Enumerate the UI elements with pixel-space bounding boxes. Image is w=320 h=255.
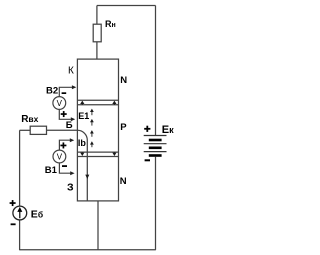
arrow Ib a xyxy=(91,133,93,137)
arrow E1 a xyxy=(91,111,93,115)
junction 2 arrow right xyxy=(112,152,116,156)
svg-text:E1: E1 xyxy=(78,111,89,121)
junction 1 lower line xyxy=(77,104,118,106)
wire B1 top probe xyxy=(59,140,70,150)
wire base to box xyxy=(47,129,78,131)
wire left rail lower xyxy=(19,220,21,250)
wire base current arc and inner vertical xyxy=(77,130,87,201)
wire bottom rail xyxy=(20,249,156,251)
wire collector branch upper xyxy=(96,6,98,25)
battery Ek plates xyxy=(144,136,167,152)
junction 1 upper line xyxy=(77,99,118,101)
svg-text:Rн: Rн xyxy=(105,19,116,29)
svg-text:Eк: Eк xyxy=(162,124,174,136)
wire right rail upper xyxy=(155,6,157,136)
resistor Rvx body xyxy=(30,126,46,134)
plus B1 xyxy=(60,145,66,147)
junction 2 lower line xyxy=(77,156,118,158)
transistor structure box xyxy=(77,59,118,201)
wire emitter below box xyxy=(97,201,99,250)
junction 2 upper line xyxy=(77,151,118,153)
source Eb arrow xyxy=(19,211,21,218)
arrow Ib b xyxy=(91,144,93,147)
svg-text:P: P xyxy=(120,122,127,133)
emitter current arrow xyxy=(85,175,89,179)
plus B2 xyxy=(61,113,67,115)
svg-text:Ib: Ib xyxy=(78,138,87,148)
minus Eb xyxy=(11,223,16,225)
svg-text:B1: B1 xyxy=(45,165,58,176)
svg-text:N: N xyxy=(120,176,127,187)
wire base left xyxy=(20,129,31,131)
plus Eb xyxy=(10,202,16,204)
minus B1 xyxy=(62,165,67,167)
wire left rail upper xyxy=(19,130,21,206)
junction 1 arrow right xyxy=(112,101,116,105)
svg-text:Rвх: Rвх xyxy=(21,114,38,125)
junction 1 arrow left xyxy=(80,101,84,105)
svg-text:Eб: Eб xyxy=(31,208,43,220)
svg-text:B2: B2 xyxy=(46,86,58,97)
junction 2 arrow left xyxy=(80,152,84,156)
wire B1 bottom probe xyxy=(59,163,70,173)
voltmeter B2 circle xyxy=(53,97,66,110)
svg-text:З: З xyxy=(67,182,74,194)
plus Ek xyxy=(144,128,150,130)
svg-text:V: V xyxy=(57,152,63,161)
voltmeter B1 circle xyxy=(53,150,66,163)
minus Ek xyxy=(145,159,150,161)
arrow E1 b xyxy=(91,122,93,126)
source Eb circle xyxy=(13,206,27,220)
wire B2 bottom probe xyxy=(59,109,71,119)
wire top rail xyxy=(97,5,156,7)
resistor Rn body xyxy=(93,24,101,42)
svg-text:Б: Б xyxy=(66,120,73,131)
svg-text:N: N xyxy=(120,75,127,86)
wire collector branch lower xyxy=(96,42,98,59)
wire B2 top probe xyxy=(59,87,72,96)
svg-text:V: V xyxy=(57,99,63,108)
minus B2 xyxy=(62,92,67,94)
field arrows column xyxy=(90,109,94,148)
svg-text:К: К xyxy=(68,66,74,77)
wire right rail lower xyxy=(155,157,157,250)
